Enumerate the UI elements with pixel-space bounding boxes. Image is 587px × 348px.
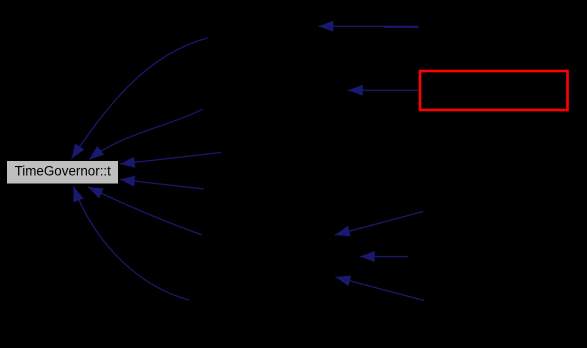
svg-text:TimeGovernor::t: TimeGovernor::t [15, 164, 112, 179]
